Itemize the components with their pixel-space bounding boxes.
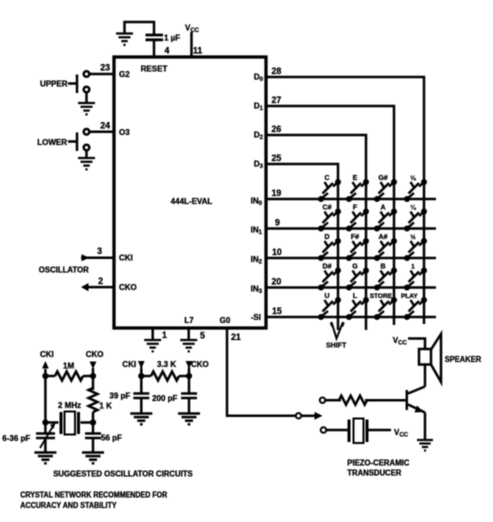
svg-text:56 pF: 56 pF xyxy=(101,434,122,443)
svg-text:26: 26 xyxy=(272,124,282,134)
svg-text:STORE: STORE xyxy=(370,293,393,300)
svg-text:IN2: IN2 xyxy=(251,255,263,266)
svg-text:F: F xyxy=(353,205,358,212)
svg-text:3: 3 xyxy=(97,246,102,256)
svg-text:20: 20 xyxy=(272,277,282,287)
svg-text:D1: D1 xyxy=(254,102,264,113)
svg-text:39 pF: 39 pF xyxy=(109,392,130,401)
svg-text:SHIFT: SHIFT xyxy=(326,343,347,350)
svg-text:A: A xyxy=(380,205,385,212)
svg-text:CRYSTAL NETWORK RECOMMENDED FO: CRYSTAL NETWORK RECOMMENDED FOR xyxy=(20,491,167,500)
svg-text:23: 23 xyxy=(100,63,110,73)
svg-text:RESET: RESET xyxy=(141,65,168,74)
svg-text:CKO: CKO xyxy=(86,350,104,359)
svg-text:5: 5 xyxy=(200,331,205,341)
svg-text:LOWER: LOWER xyxy=(37,138,67,147)
svg-text:⅛: ⅛ xyxy=(410,175,416,182)
svg-text:CKO: CKO xyxy=(119,283,137,292)
svg-text:21: 21 xyxy=(231,332,241,342)
svg-text:SPEAKER: SPEAKER xyxy=(445,355,482,364)
svg-text:G0: G0 xyxy=(220,316,231,325)
svg-text:444L-EVAL: 444L-EVAL xyxy=(171,197,213,206)
svg-text:TRANSDUCER: TRANSDUCER xyxy=(347,469,401,478)
svg-text:CKI: CKI xyxy=(119,254,133,263)
svg-text:-SI: -SI xyxy=(251,313,261,322)
svg-text:UPPER: UPPER xyxy=(40,80,68,89)
svg-text:28: 28 xyxy=(272,66,282,76)
svg-text:1: 1 xyxy=(162,330,167,340)
svg-text:D#: D# xyxy=(323,264,332,271)
svg-text:C: C xyxy=(324,175,329,182)
svg-text:OSCILLATOR: OSCILLATOR xyxy=(39,266,89,275)
svg-text:2: 2 xyxy=(98,276,103,286)
svg-text:B: B xyxy=(380,264,385,271)
svg-text:10: 10 xyxy=(272,247,282,257)
svg-text:CKO: CKO xyxy=(191,360,209,369)
svg-text:2 MHz: 2 MHz xyxy=(58,401,81,410)
svg-text:VCC: VCC xyxy=(185,24,200,35)
svg-text:24: 24 xyxy=(100,121,110,131)
svg-text:IN1: IN1 xyxy=(251,226,263,237)
svg-text:IN0: IN0 xyxy=(251,197,263,208)
svg-text:E: E xyxy=(353,175,358,182)
svg-text:F#: F# xyxy=(351,234,359,241)
svg-text:1: 1 xyxy=(411,264,415,271)
svg-text:ACCURACY AND STABILITY: ACCURACY AND STABILITY xyxy=(20,501,117,510)
svg-text:G2: G2 xyxy=(119,70,130,79)
svg-text:VCC: VCC xyxy=(394,428,409,439)
svg-text:G#: G# xyxy=(378,175,387,182)
svg-text:3.3 K: 3.3 K xyxy=(157,360,176,369)
svg-text:D3: D3 xyxy=(254,160,264,171)
svg-text:9: 9 xyxy=(275,218,280,228)
svg-text:L: L xyxy=(353,293,358,300)
svg-text:27: 27 xyxy=(272,95,282,105)
svg-text:15: 15 xyxy=(272,306,282,316)
svg-text:CKI: CKI xyxy=(122,360,136,369)
svg-text:VCC: VCC xyxy=(393,336,408,347)
svg-text:G: G xyxy=(352,264,358,271)
svg-text:¼: ¼ xyxy=(410,205,416,212)
svg-text:SUGGESTED OSCILLATOR CIRCUITS: SUGGESTED OSCILLATOR CIRCUITS xyxy=(53,470,193,479)
svg-text:11: 11 xyxy=(193,46,202,56)
svg-text:D0: D0 xyxy=(254,73,264,84)
svg-text:C#: C# xyxy=(323,205,332,212)
svg-text:25: 25 xyxy=(272,153,282,163)
svg-text:PIEZO-CERAMIC: PIEZO-CERAMIC xyxy=(347,459,409,468)
svg-text:200 pF: 200 pF xyxy=(152,394,177,403)
svg-text:1M: 1M xyxy=(63,362,74,371)
svg-text:D: D xyxy=(324,234,329,241)
svg-text:IN3: IN3 xyxy=(251,285,263,296)
svg-text:1 K: 1 K xyxy=(99,402,112,411)
svg-text:CKI: CKI xyxy=(40,350,54,359)
svg-text:½: ½ xyxy=(410,234,415,241)
svg-text:D2: D2 xyxy=(254,131,264,142)
svg-text:6-36 pF: 6-36 pF xyxy=(2,434,30,443)
svg-text:19: 19 xyxy=(272,188,282,198)
svg-text:4: 4 xyxy=(165,46,170,56)
svg-text:1 µF: 1 µF xyxy=(164,34,180,43)
svg-text:O3: O3 xyxy=(119,128,130,137)
svg-text:PLAY: PLAY xyxy=(401,293,418,300)
svg-text:U: U xyxy=(324,293,329,300)
svg-text:L7: L7 xyxy=(184,316,194,325)
svg-text:A#: A# xyxy=(379,234,388,241)
